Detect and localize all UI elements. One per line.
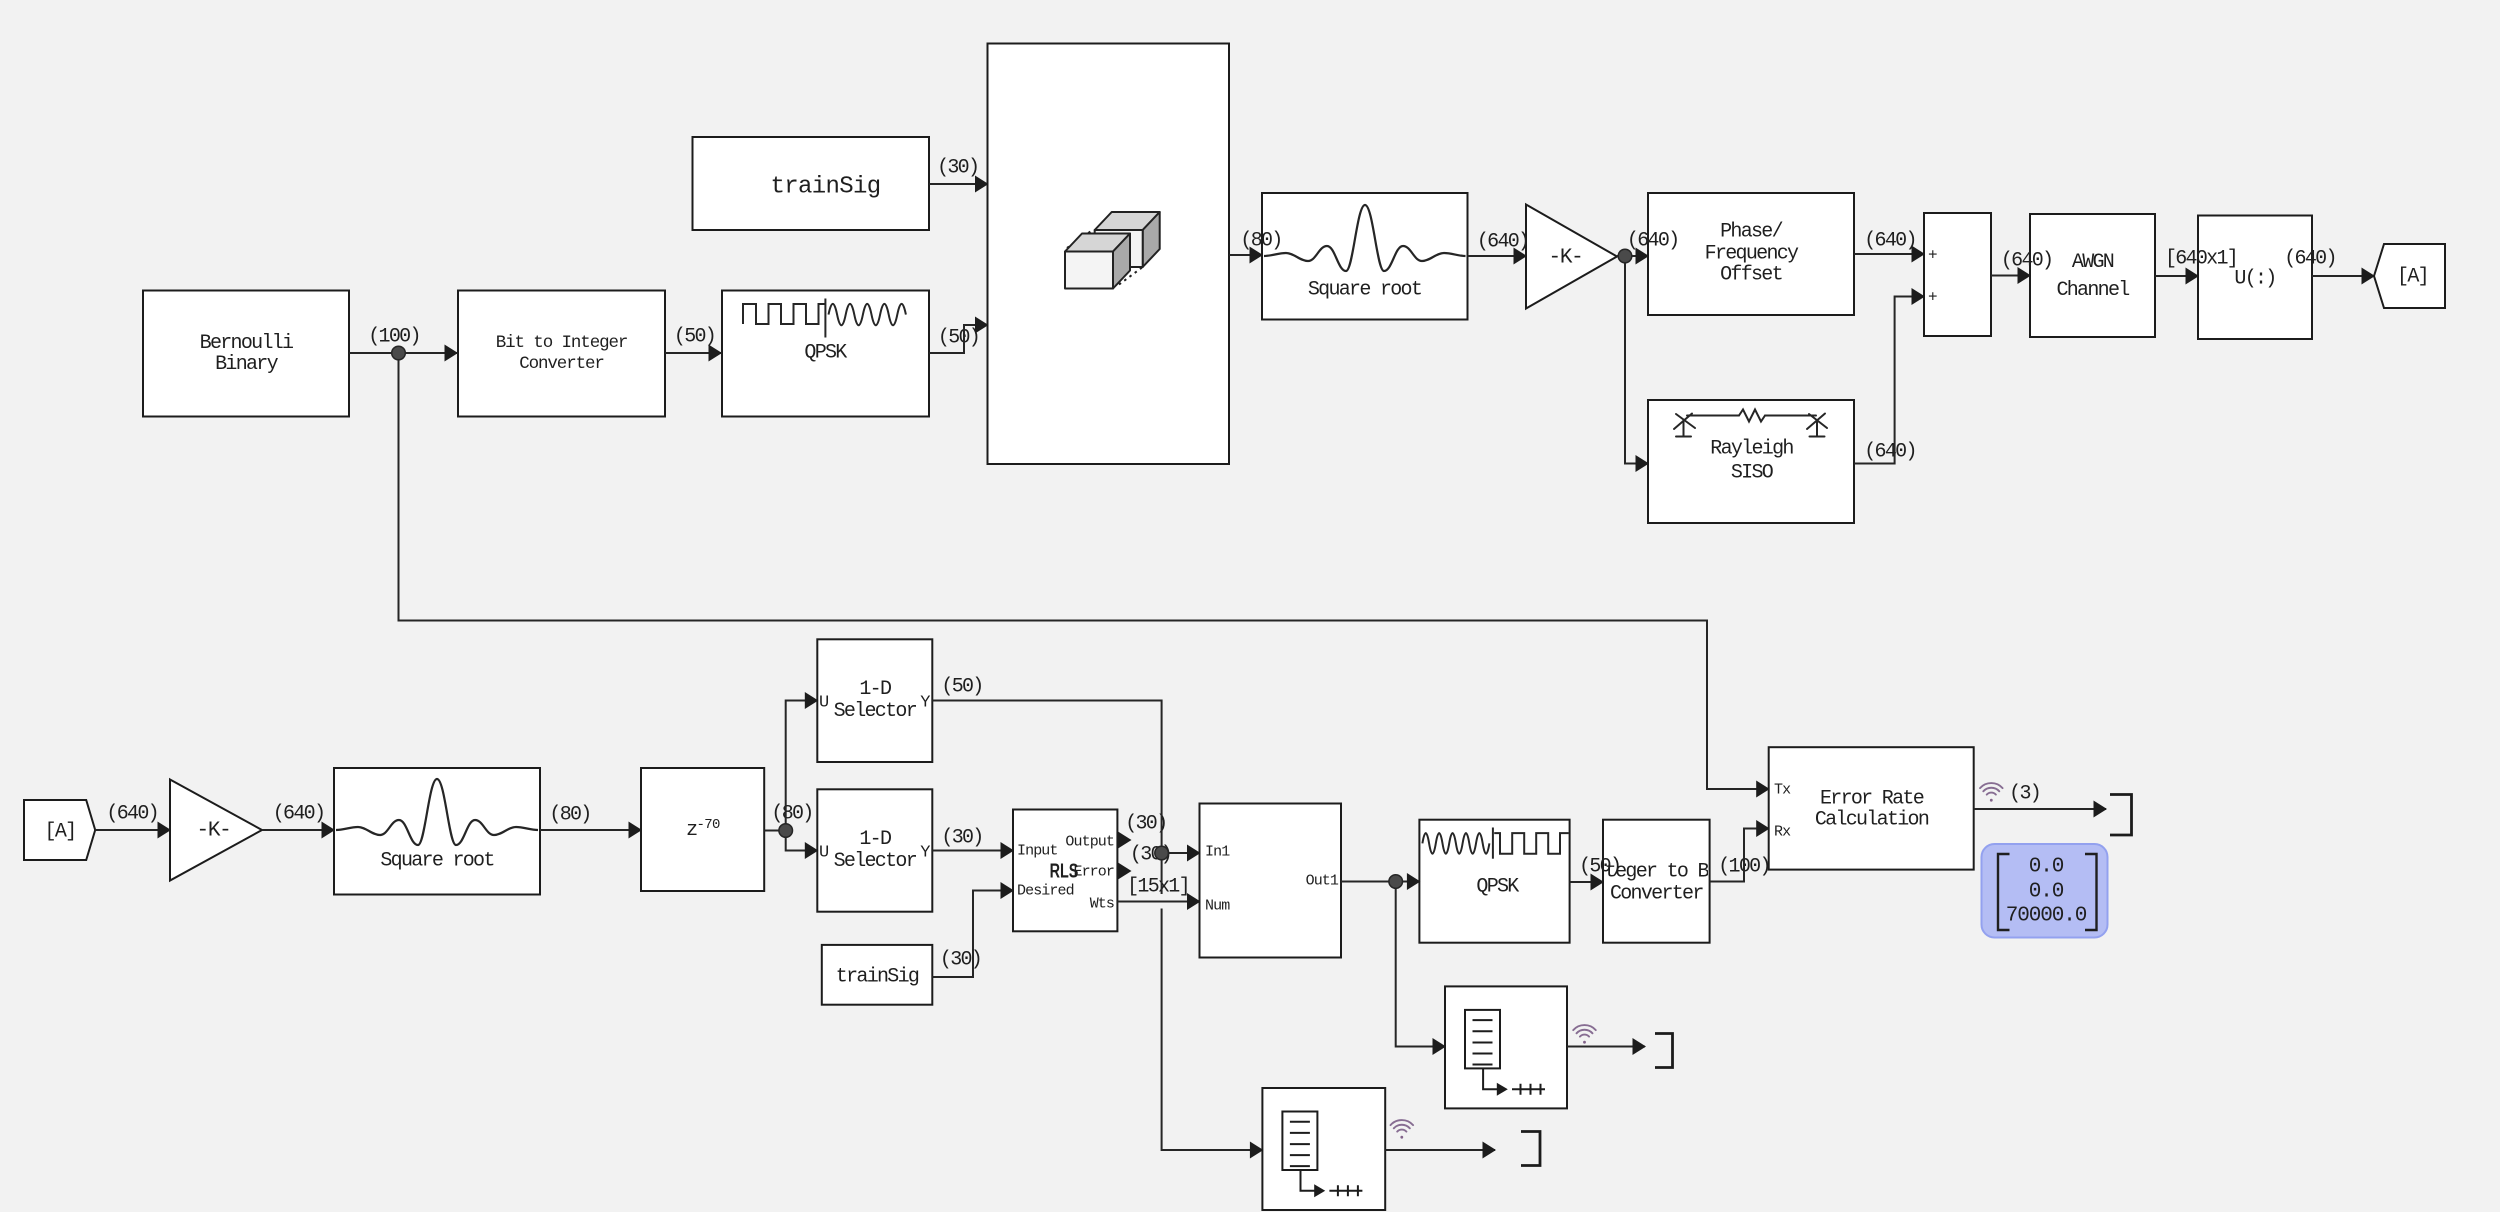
text RLS (block name) xyxy=(1049,862,1078,883)
wire junction up to top selector xyxy=(786,701,818,831)
block Error Rate Calculation xyxy=(1769,747,1974,869)
arrowhead into lower scope xyxy=(1250,1142,1264,1159)
wifi badge at upper scope output xyxy=(1573,1025,1596,1044)
signal label (80) after square root bottom xyxy=(549,805,590,826)
signal label (30) after trainSig bottom xyxy=(940,949,981,970)
text Bit to Integer Converter xyxy=(496,333,628,375)
wire lower scope to terminator xyxy=(1385,1149,1495,1151)
block Phase/Frequency Offset xyxy=(1648,193,1854,315)
text Square root (top) xyxy=(1308,279,1421,300)
block Square root raised cosine filter (top) xyxy=(1262,193,1468,320)
signal label (3) after Error Rate xyxy=(2009,784,2040,805)
wifi badge at lower scope output xyxy=(1391,1120,1414,1139)
wire from tag to gain bottom xyxy=(95,829,170,831)
block trainSig (bottom) xyxy=(822,945,933,1005)
arrowhead into In1 xyxy=(1187,845,1201,862)
icon QPSK modulator waveform xyxy=(743,299,906,338)
block 1-D Selector (top) xyxy=(817,639,932,762)
block QPSK demodulator xyxy=(1419,820,1569,943)
icon Rayleigh channel antennas xyxy=(1674,410,1827,437)
junction dot after gain top xyxy=(1618,249,1632,263)
wire Bernoulli to Bit-to-Integer xyxy=(349,352,458,354)
arrowhead into QPSK demod xyxy=(1407,873,1421,890)
text plus sign sum input 1 xyxy=(1928,245,1936,266)
text Square root (bottom) xyxy=(380,850,493,871)
port label U (top selector) xyxy=(819,693,828,714)
text Error Rate Calculation xyxy=(1815,788,1928,831)
arrowhead into Rx xyxy=(1756,820,1770,837)
text 1-D Selector (bottom) xyxy=(834,829,916,873)
port label Input (RLS) xyxy=(1017,841,1058,862)
block In1-Out1 subsystem xyxy=(1200,804,1342,958)
arrowhead into Integer-to-Bit xyxy=(1591,874,1605,891)
icon QPSK demodulator waveform xyxy=(1422,828,1568,859)
block Integer to Bit Converter xyxy=(1603,820,1710,943)
signal label (640) after Rayleigh xyxy=(1864,441,1916,462)
signal label (30) at RLS Error xyxy=(1130,844,1171,865)
from tag A xyxy=(24,800,95,860)
block 1-D Selector (bottom) xyxy=(817,789,932,911)
port label Rx xyxy=(1774,821,1790,842)
wire Out1 junction down to upper scope xyxy=(1396,882,1445,1047)
wifi badge at Error Rate output xyxy=(1980,783,2003,802)
arrowhead into square root top xyxy=(1250,247,1264,264)
wire sum to AWGN xyxy=(1991,275,2030,277)
text QPSK (demodulator) xyxy=(1476,876,1517,897)
arrowhead into Rayleigh xyxy=(1636,455,1650,472)
arrowhead into goto tag xyxy=(2362,268,2376,285)
block QPSK modulator xyxy=(722,291,929,417)
signal label (640) after U(:) xyxy=(2284,248,2336,269)
arrowhead into RLS Input xyxy=(1001,842,1015,859)
wire branch down to Rayleigh xyxy=(1625,256,1648,464)
wire Out1 to QPSK demod xyxy=(1341,881,1419,883)
wire gain bottom to square root bottom xyxy=(262,829,334,831)
arrowhead into OFDM from QPSK xyxy=(975,317,989,334)
arrowhead into PFO xyxy=(1636,248,1650,265)
block Bernoulli Binary xyxy=(143,291,349,417)
signal label (640) after PFO xyxy=(1864,231,1916,252)
signal label (640) after gain top xyxy=(1627,231,1679,252)
wire Integer-to-Bit to Rx xyxy=(1710,829,1769,882)
signal label (640) after square root top xyxy=(1477,232,1529,253)
block To Workspace scope (lower) xyxy=(1262,1088,1385,1210)
arrowhead into terminator 2 xyxy=(1633,1038,1647,1055)
display value row 1 xyxy=(2029,857,2064,878)
text Integer to Bit Converter (clipped line 1) xyxy=(1605,862,1708,883)
block RLS equalizer xyxy=(1013,810,1117,932)
signal label (80) after delay xyxy=(771,804,812,825)
signal label (100) top xyxy=(368,327,420,348)
wire trainSig to OFDM block xyxy=(929,183,988,185)
block Square root raised cosine filter (bottom) xyxy=(334,768,540,895)
display value row 3 xyxy=(2006,906,2087,927)
sum block xyxy=(1924,213,1991,336)
wire Error Rate to terminator xyxy=(1974,808,2106,810)
icon scope upper xyxy=(1465,1010,1545,1096)
wire top selector Y down to In1 junction and lower scope xyxy=(932,701,1262,1151)
arrowhead into OFDM from trainSig xyxy=(975,176,989,193)
port label Tx xyxy=(1774,780,1790,801)
terminator bracket after upper scope xyxy=(1655,1034,1673,1068)
signal label (80) after OFDM block xyxy=(1240,231,1281,252)
wire gain to PFO xyxy=(1617,255,1648,257)
wire QPSK to OFDM block xyxy=(929,325,988,353)
wire RLS Wts to Num xyxy=(1117,901,1199,903)
port label Desired (RLS) xyxy=(1017,880,1074,901)
text goto tag [A] xyxy=(2397,267,2428,288)
arrowhead into QPSK mod xyxy=(709,345,723,362)
arrowhead dangling RLS Output xyxy=(1118,832,1132,849)
port label Num xyxy=(1205,896,1229,917)
signal label (50) after top selector xyxy=(941,676,982,697)
display block (highlighted) xyxy=(1982,844,2108,938)
signal label (30) after trainSig top xyxy=(937,158,978,179)
wire bottom selector Y to RLS Input xyxy=(932,850,1013,852)
arrowhead into AWGN xyxy=(2018,267,2032,284)
arrowhead into gain bottom xyxy=(158,822,172,839)
signal label (30) at RLS Output xyxy=(1125,814,1166,835)
port label Out1 xyxy=(1306,871,1338,892)
signal label (100) before Error Rate xyxy=(1718,857,1770,878)
text -K- (bottom gain) xyxy=(197,821,231,842)
arrowhead into RLS Desired xyxy=(1001,882,1015,899)
port label In1 xyxy=(1205,841,1229,862)
junction dot on In1 wire xyxy=(1155,846,1169,860)
arrowhead into bottom selector U xyxy=(805,842,819,859)
signal label (640) after sum xyxy=(2001,250,2053,271)
wire QPSK demod to Integer-to-Bit xyxy=(1570,881,1603,883)
arrowhead into terminator 1 xyxy=(2094,801,2108,818)
wire PFO to sum xyxy=(1854,253,1924,255)
arrowhead into delay xyxy=(629,822,643,839)
wire OFDM block to square root top xyxy=(1229,254,1262,256)
port label Y (bottom selector) xyxy=(920,843,929,864)
goto tag A xyxy=(2374,244,2445,308)
text Phase/Frequency Offset xyxy=(1705,221,1798,286)
text -K- (top gain) xyxy=(1549,247,1583,268)
arrowhead dangling RLS Error xyxy=(1118,863,1132,880)
text from tag [A] xyxy=(45,821,76,842)
display value row 2 xyxy=(2029,881,2064,902)
block Bit to Integer Converter xyxy=(458,291,665,417)
block AWGN Channel xyxy=(2030,214,2155,337)
display matrix bracket left xyxy=(1998,854,2010,930)
port label Error (RLS) xyxy=(1073,862,1114,883)
text AWGN Channel xyxy=(2056,249,2128,305)
text Bernoulli Binary xyxy=(200,333,293,375)
arrowhead into sum input 1 xyxy=(1912,246,1926,263)
terminator bracket after Error Rate xyxy=(2110,795,2132,836)
wire trainSig bottom to RLS Desired xyxy=(932,891,1013,978)
block delay z^-70 xyxy=(641,768,764,891)
wire junction down to bottom selector xyxy=(786,831,818,851)
arrowhead into terminator 3 xyxy=(1483,1142,1497,1159)
arrowhead into sum input 2 xyxy=(1912,288,1926,305)
icon scope lower xyxy=(1282,1112,1362,1198)
wire U(:) to goto tag xyxy=(2312,275,2374,277)
arrowhead into Tx xyxy=(1756,781,1770,798)
icon sinc pulse (square root bottom) xyxy=(336,779,538,845)
wire branch (100) to Tx xyxy=(399,353,1770,789)
block To Workspace scope (upper) xyxy=(1445,986,1567,1108)
wire delay to junction xyxy=(764,830,786,832)
port label Output (RLS) xyxy=(1065,831,1114,852)
signal label (50) after Out1 xyxy=(1579,857,1620,878)
text z^-70 xyxy=(686,815,720,841)
junction dot after Bernoulli xyxy=(392,346,406,360)
signal label (640) after from tag xyxy=(106,803,158,824)
signal label (50) after QPSK mod xyxy=(938,327,979,348)
block U(:) reshape xyxy=(2198,216,2312,340)
icon sinc pulse (square root top) xyxy=(1264,205,1466,271)
wire square root bottom to delay xyxy=(540,829,641,831)
gain -K- (bottom) xyxy=(170,780,262,881)
wire square root top to gain xyxy=(1468,255,1527,257)
arrowhead into Num xyxy=(1187,893,1201,910)
port label Wts (RLS) xyxy=(1090,894,1114,915)
wire upper scope to terminator xyxy=(1567,1046,1645,1048)
text trainSig (bottom) xyxy=(836,966,918,987)
signal label [640x1] after AWGN xyxy=(2165,249,2237,270)
text Rayleigh SISO xyxy=(1710,438,1792,485)
display matrix bracket right xyxy=(2085,854,2097,930)
block trainSig (top) xyxy=(693,137,930,230)
gain -K- (top) xyxy=(1526,205,1617,309)
arrowhead into U(:) xyxy=(2186,268,2200,285)
terminator bracket after lower scope xyxy=(1521,1132,1540,1166)
junction dot after delay xyxy=(779,824,793,838)
icon 3-D cubes (OFDM modulator) xyxy=(1065,212,1160,289)
arrowhead into gain top xyxy=(1514,248,1528,265)
text trainSig (top) xyxy=(770,177,880,198)
text plus sign sum input 2 xyxy=(1928,287,1936,308)
junction dot after Out1 xyxy=(1389,875,1403,889)
text Integer to Bit Converter (line 2) xyxy=(1610,883,1703,904)
arrowhead into upper scope xyxy=(1433,1038,1447,1055)
arrowhead into Bit-to-Integer xyxy=(445,345,459,362)
port label Y (top selector) xyxy=(920,693,929,714)
signal label [15x1] at RLS Wts xyxy=(1127,876,1189,897)
wire AWGN to U(:) xyxy=(2155,275,2198,277)
block OFDM modulator (large subsystem) xyxy=(988,44,1230,465)
block Rayleigh SISO xyxy=(1648,400,1854,523)
text 1-D Selector (top) xyxy=(834,679,916,723)
signal label (640) after gain bottom xyxy=(273,803,325,824)
arrowhead into square root bottom xyxy=(322,822,336,839)
port label U (bottom selector) xyxy=(819,843,828,864)
text U(:) xyxy=(2234,268,2275,289)
signal label (30) after bottom selector xyxy=(941,827,982,848)
signal label (50) after converter xyxy=(674,327,715,348)
wire In1 junction to In1 port xyxy=(1162,852,1200,854)
wire Bit-to-Integer to QPSK xyxy=(665,352,722,354)
wire Rayleigh to sum xyxy=(1854,297,1924,464)
text QPSK (modulator) xyxy=(804,343,845,364)
arrowhead into top selector U xyxy=(805,692,819,709)
